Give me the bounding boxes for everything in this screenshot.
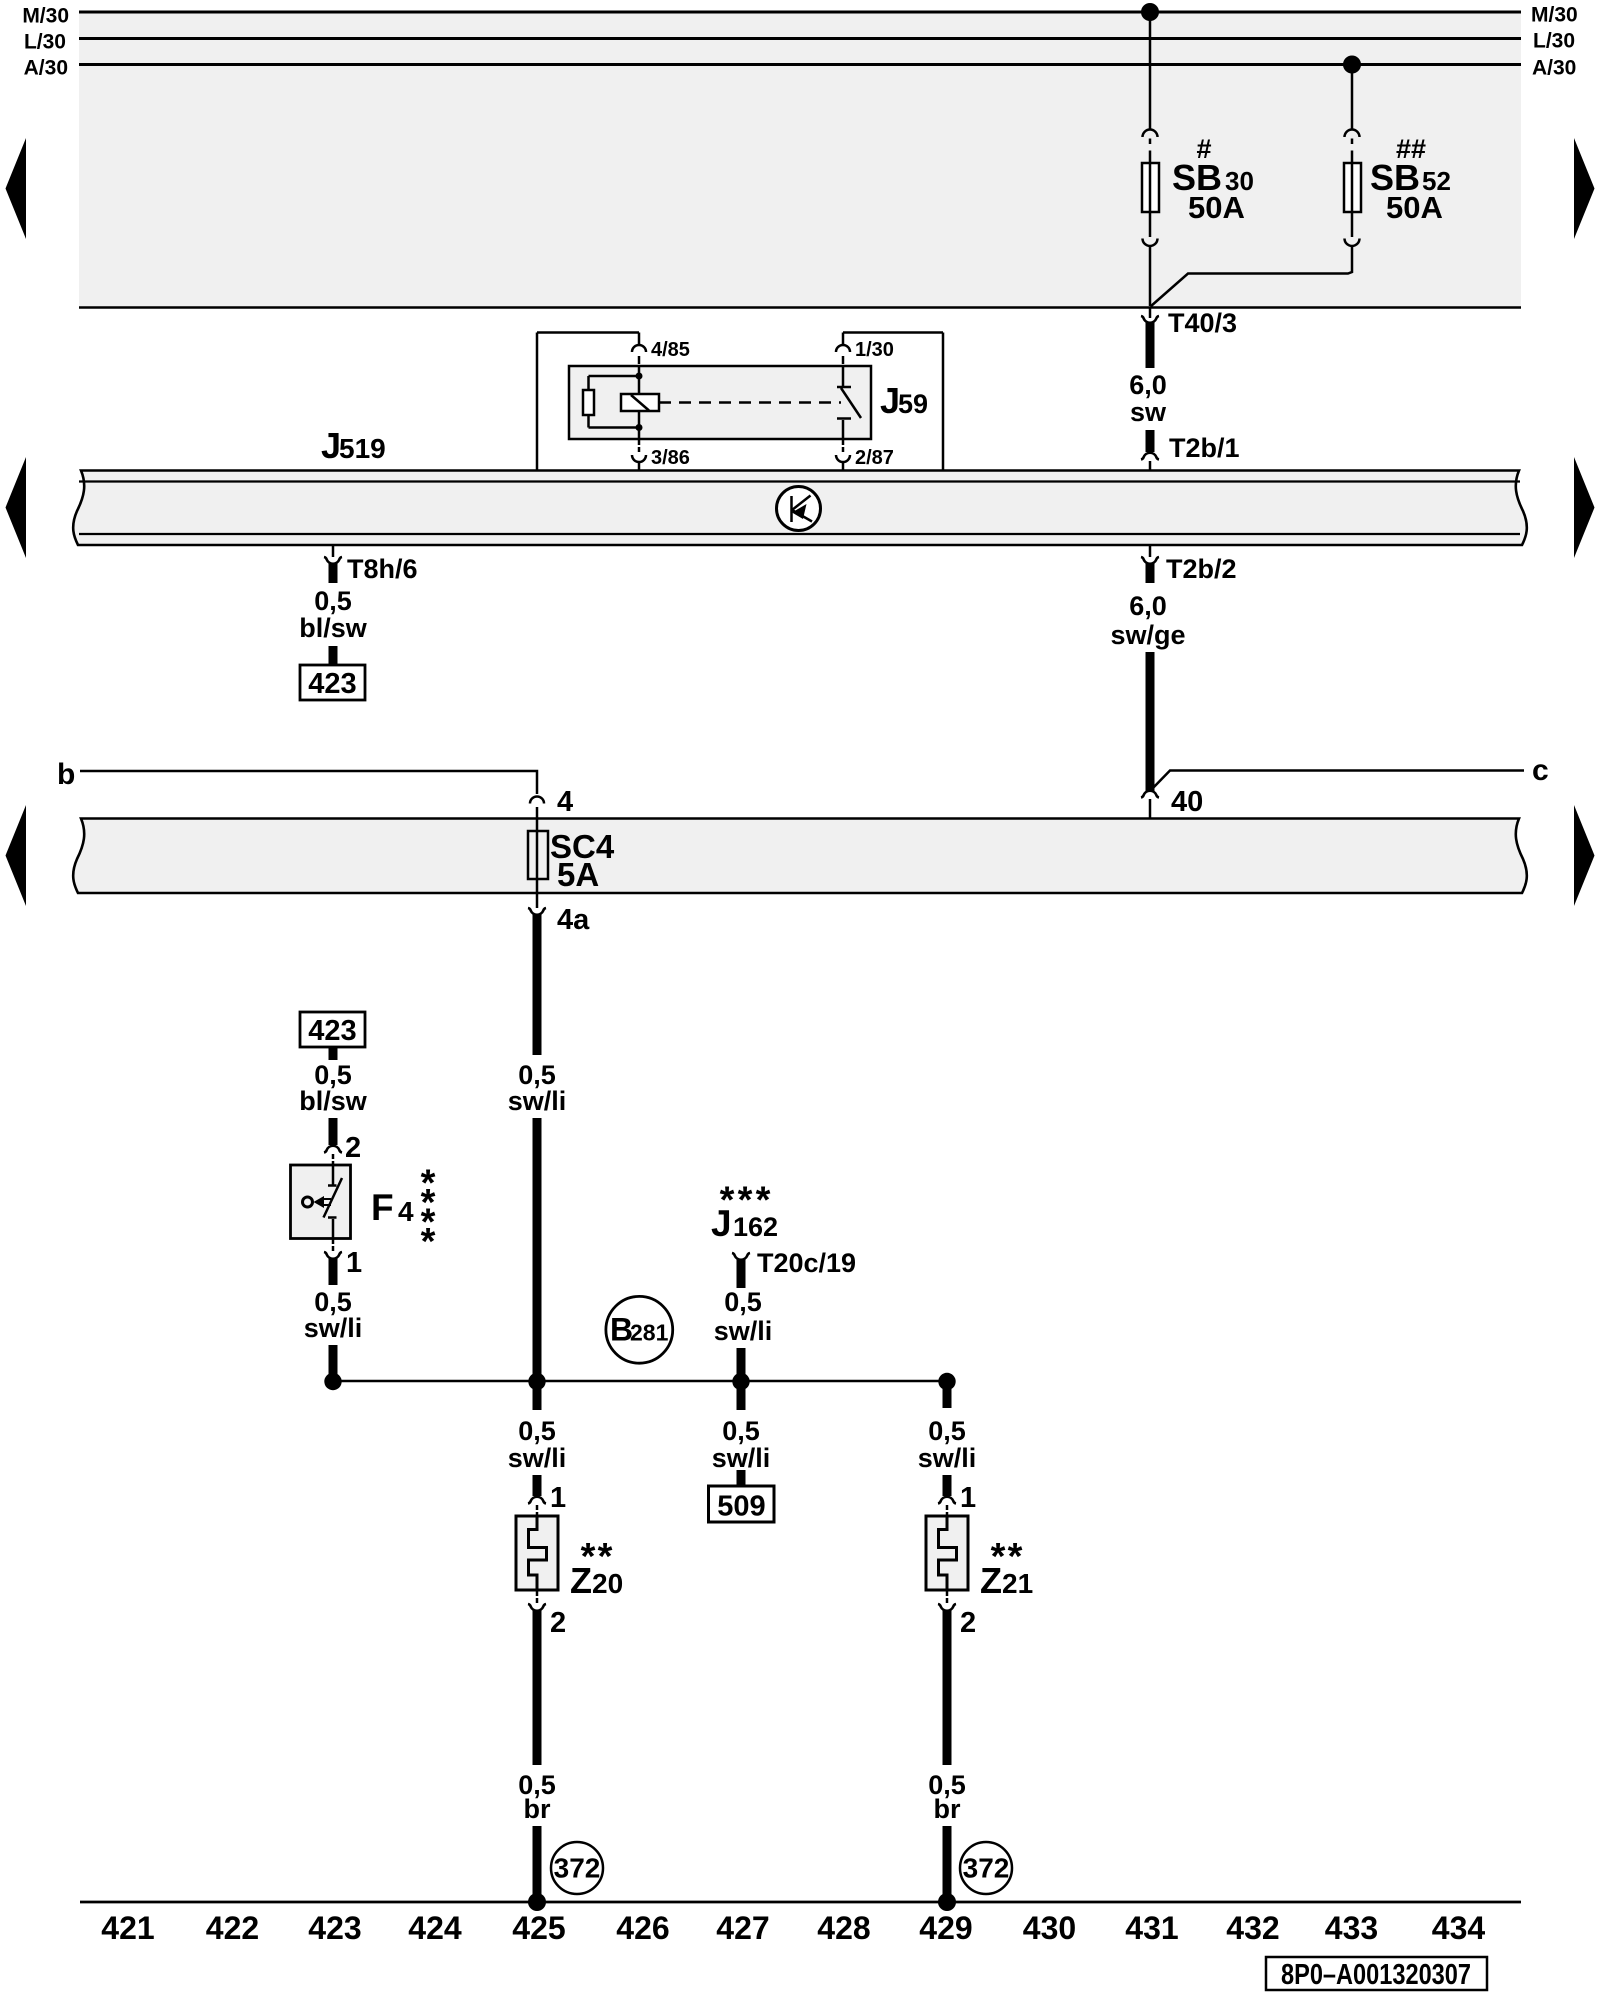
- svg-text:br: br: [524, 1794, 551, 1824]
- terminal symbol K: [777, 487, 821, 531]
- heater element Z20: [516, 1516, 558, 1590]
- svg-text:423: 423: [308, 1910, 361, 1946]
- pin 1 Z20: [528, 1497, 546, 1504]
- svg-text:2: 2: [550, 1607, 566, 1639]
- continuation arrow left band2: [6, 457, 27, 558]
- svg-text:0,5: 0,5: [314, 586, 352, 616]
- connector T8h/6: [332, 545, 335, 557]
- box 423 upper: [300, 1012, 365, 1047]
- svg-text:0,5: 0,5: [724, 1287, 762, 1317]
- junction on M/30: [1141, 3, 1159, 21]
- wire 0,5 sw/li to 509: [737, 1381, 746, 1410]
- svg-text:c: c: [1532, 754, 1549, 787]
- svg-text:431: 431: [1125, 1910, 1178, 1946]
- svg-text:59: 59: [898, 389, 928, 419]
- svg-text:M/30: M/30: [1531, 4, 1578, 27]
- connector 4a: [536, 893, 539, 908]
- svg-text:426: 426: [616, 1910, 669, 1946]
- connector T2b/1: [1141, 453, 1159, 460]
- svg-text:b: b: [57, 758, 75, 791]
- svg-text:T2b/1: T2b/1: [1169, 433, 1240, 463]
- fuse SB30: [1143, 130, 1158, 137]
- continuation arrow right band3: [1574, 805, 1595, 906]
- svg-text:50A: 50A: [1386, 190, 1443, 225]
- wire M/30 rail: [79, 11, 1521, 14]
- junction x=333: [324, 1373, 341, 1390]
- svg-text:sw/li: sw/li: [508, 1443, 567, 1473]
- wire 0,5 br: [533, 1610, 542, 1765]
- wire 0,5 sw/li to Z21: [943, 1381, 952, 1408]
- connector T40/3: [1149, 308, 1152, 319]
- svg-text:2: 2: [345, 1132, 361, 1164]
- svg-text:L/30: L/30: [24, 31, 66, 54]
- svg-text:sw/ge: sw/ge: [1110, 620, 1185, 650]
- wire 6,0 sw/ge: [1146, 563, 1155, 583]
- wire c: [1151, 771, 1524, 791]
- svg-text:427: 427: [716, 1910, 769, 1946]
- junction dots coil: [636, 373, 643, 380]
- fuse SC4 5A: [528, 831, 548, 879]
- svg-text:T20c/19: T20c/19: [757, 1248, 856, 1278]
- svg-text:4: 4: [398, 1196, 414, 1227]
- relay body J59: [569, 366, 871, 439]
- wire 0,5 sw/li: [329, 1258, 338, 1285]
- svg-text:br: br: [934, 1794, 961, 1824]
- svg-text:40: 40: [1171, 786, 1203, 818]
- wire b: [80, 771, 537, 794]
- svg-text:2/87: 2/87: [855, 447, 894, 469]
- pin 1 F4: [332, 1239, 335, 1245]
- svg-text:422: 422: [206, 1910, 259, 1946]
- svg-text:4/85: 4/85: [651, 339, 690, 361]
- band bottom edge: [79, 306, 1521, 309]
- svg-text:sw: sw: [1130, 397, 1167, 427]
- continuation arrow left band1: [6, 138, 27, 239]
- pin 3/86: [638, 439, 641, 445]
- box 509: [709, 1486, 775, 1522]
- svg-text:8P0–A001320307: 8P0–A001320307: [1281, 1959, 1471, 1991]
- wire SB52 to T40/3: [1151, 246, 1353, 307]
- svg-text:50A: 50A: [1188, 190, 1245, 225]
- continuation arrow right band1: [1574, 138, 1595, 239]
- svg-text:bl/sw: bl/sw: [299, 1086, 368, 1116]
- svg-text:429: 429: [919, 1910, 972, 1946]
- wire through SC4: [536, 819, 539, 894]
- relay coil resistor: [638, 366, 641, 394]
- wire 0,5 bl/sw: [329, 1047, 338, 1060]
- relay switch contact: [842, 366, 845, 387]
- pin 2 Z21: [946, 1590, 949, 1596]
- wire 0,5 br: [943, 1610, 952, 1765]
- svg-text:1: 1: [960, 1482, 976, 1514]
- power rail band 30: [79, 12, 1521, 308]
- wire 0,5 sw/li: [737, 1259, 746, 1288]
- connector T20c/19: [732, 1253, 750, 1260]
- connector 40: [1141, 791, 1159, 798]
- svg-text:425: 425: [512, 1910, 565, 1946]
- svg-text:281: 281: [630, 1320, 669, 1346]
- svg-text:20: 20: [592, 1568, 623, 1599]
- svg-text:T2b/2: T2b/2: [1166, 554, 1237, 584]
- svg-text:A/30: A/30: [1532, 57, 1576, 80]
- svg-text:3/86: 3/86: [651, 447, 690, 469]
- svg-text:1: 1: [550, 1482, 566, 1514]
- svg-text:428: 428: [817, 1910, 870, 1946]
- svg-text:162: 162: [733, 1212, 778, 1242]
- svg-text:0,5: 0,5: [518, 1416, 556, 1446]
- svg-text:J: J: [711, 1203, 732, 1244]
- svg-text:423: 423: [308, 668, 356, 700]
- svg-text:F: F: [371, 1187, 394, 1228]
- svg-text:1/30: 1/30: [855, 339, 894, 361]
- pin 2 Z20: [536, 1590, 539, 1596]
- ground 372 right: [960, 1842, 1012, 1894]
- junction x=947: [938, 1373, 955, 1390]
- wire distribution: [333, 1380, 947, 1383]
- fuse carrier band: [73, 819, 1527, 894]
- svg-text:432: 432: [1226, 1910, 1279, 1946]
- svg-text:M/30: M/30: [22, 5, 69, 28]
- junction on A/30: [1343, 56, 1361, 74]
- svg-text:430: 430: [1023, 1910, 1076, 1946]
- junction x=741: [732, 1373, 749, 1390]
- continuation arrow right band2: [1574, 457, 1595, 558]
- switch F4: [291, 1165, 351, 1239]
- junction x=537: [528, 1373, 545, 1390]
- svg-text:4: 4: [557, 786, 573, 818]
- pin 2 F4: [324, 1146, 342, 1153]
- svg-text:sw/li: sw/li: [712, 1443, 771, 1473]
- svg-text:21: 21: [1002, 1568, 1033, 1599]
- wire 6,0 sw: [1146, 322, 1155, 368]
- dashed actuation line: [659, 401, 841, 404]
- svg-text:sw/li: sw/li: [508, 1086, 567, 1116]
- pin 4/85: [638, 333, 641, 346]
- box 423: [300, 665, 365, 700]
- svg-text:509: 509: [717, 1491, 765, 1523]
- svg-text:433: 433: [1325, 1910, 1378, 1946]
- wire 0,5 bl/sw: [329, 563, 338, 583]
- svg-text:6,0: 6,0: [1129, 591, 1167, 621]
- svg-text:sw/li: sw/li: [918, 1443, 977, 1473]
- svg-text:1: 1: [346, 1247, 362, 1279]
- heater element Z21: [926, 1516, 968, 1590]
- svg-text:*: *: [421, 1221, 436, 1263]
- svg-text:5A: 5A: [557, 856, 599, 893]
- svg-text:372: 372: [963, 1853, 1010, 1884]
- ground 372 left: [551, 1842, 603, 1894]
- pin 2/87: [842, 439, 845, 445]
- svg-text:421: 421: [101, 1910, 154, 1946]
- wire L/30 rail: [79, 37, 1521, 40]
- wire SB30 feed: [1149, 12, 1152, 130]
- sensor label B281: [606, 1296, 673, 1363]
- svg-text:519: 519: [339, 433, 386, 464]
- svg-text:sw/li: sw/li: [304, 1313, 363, 1343]
- svg-text:2: 2: [960, 1607, 976, 1639]
- svg-text:4a: 4a: [557, 904, 590, 936]
- svg-text:T40/3: T40/3: [1168, 308, 1237, 338]
- svg-text:Z: Z: [980, 1560, 1002, 1601]
- svg-text:0,5: 0,5: [722, 1416, 760, 1446]
- wire 0,5 sw/li to Z20: [533, 1381, 542, 1410]
- drawing number box: [1266, 1957, 1487, 1990]
- svg-text:423: 423: [308, 1015, 356, 1047]
- svg-text:372: 372: [554, 1853, 601, 1884]
- fuse SB52: [1345, 130, 1360, 137]
- continuation arrow left band3: [6, 805, 27, 906]
- svg-text:434: 434: [1432, 1910, 1486, 1946]
- svg-text:A/30: A/30: [24, 57, 68, 80]
- svg-text:L/30: L/30: [1533, 30, 1575, 53]
- svg-text:6,0: 6,0: [1129, 370, 1167, 400]
- svg-text:sw/li: sw/li: [714, 1316, 773, 1346]
- svg-text:424: 424: [408, 1910, 462, 1946]
- pin 1 Z21: [938, 1497, 956, 1504]
- svg-text:bl/sw: bl/sw: [299, 613, 368, 643]
- pin 1/30: [842, 333, 845, 346]
- relay socket outline J59: [537, 331, 639, 334]
- ground rail: [80, 1901, 1521, 1904]
- relay coil J59: [621, 394, 659, 411]
- wire 0,5 sw/li main: [533, 914, 542, 1055]
- connector 4: [530, 797, 544, 804]
- wire SB52 feed: [1351, 65, 1354, 131]
- svg-text:T8h/6: T8h/6: [347, 554, 418, 584]
- svg-text:Z: Z: [570, 1560, 592, 1601]
- svg-text:0,5: 0,5: [928, 1416, 966, 1446]
- control unit band J519: [73, 471, 1527, 546]
- connector T2b/2: [1149, 545, 1152, 557]
- wire A/30 rail: [79, 63, 1521, 66]
